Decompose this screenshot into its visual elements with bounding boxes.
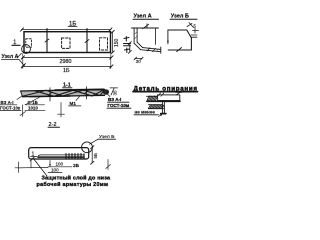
svg-text:150: 150 (114, 38, 120, 47)
detail Uzel A left dim (128, 42, 131, 54)
section 1-1 lattice zigzag (23, 90, 104, 96)
leader label S-1B / 1010 (25, 97, 45, 111)
section 1-1 tick crossing right (85, 87, 89, 99)
section 2-2 left ext cross (15, 162, 48, 173)
extension line right (110, 54, 112, 69)
svg-text:1010: 1010 (28, 105, 38, 110)
dashed opening left (26, 39, 32, 47)
right small marks stack (124, 37, 131, 53)
right vertical dimension 150 (111, 30, 120, 53)
top dimension line (21, 28, 113, 31)
plan view outline (24, 32, 111, 53)
detail Uzel A channel section (132, 24, 161, 54)
section 2-2 pos mark 1 (31, 152, 38, 158)
svg-text:2980: 2980 (60, 59, 72, 65)
leader to note (33, 158, 47, 176)
section 2-2 recess lines (38, 155, 84, 157)
svg-text:30: 30 (136, 59, 141, 64)
svg-text:ВЗ А-I: ВЗ А-I (1, 100, 14, 105)
top dimension label 1Б (68, 21, 77, 27)
svg-text:Защитный слой до низа: Защитный слой до низа (42, 175, 112, 182)
svg-text:М1: М1 (70, 101, 77, 106)
title Uzel B (detail) (170, 14, 197, 20)
leader cross left (20, 105, 26, 117)
title section 1-1 (63, 83, 73, 89)
section 2-2 right dim 56 (91, 146, 98, 165)
leader label V3 A-I / GOST left (0, 96, 23, 111)
support detail slab (147, 92, 182, 101)
svg-text:1Б: 1Б (63, 68, 70, 74)
support detail step (149, 101, 166, 114)
section 2-2 bottom dim 100 lower (48, 167, 62, 172)
svg-text:100: 100 (56, 161, 64, 166)
section 2-2 bottom dim 100 upper (48, 161, 80, 169)
node B callout circle (82, 142, 93, 153)
svg-text:35: 35 (113, 90, 118, 96)
section cut mark 1 (left) (12, 39, 20, 46)
support detail bearing ticks (158, 93, 164, 96)
section 1-1 right end hook (103, 89, 109, 95)
detail Uzel B chamfer dims (187, 23, 199, 38)
svg-text:ГОСТ-10м: ГОСТ-10м (108, 103, 130, 108)
svg-text:не менее: не менее (135, 109, 156, 114)
detail Uzel A bottom dim 30 (134, 57, 143, 64)
leader label M5 / GOST right (107, 94, 131, 108)
support detail mortar hatch (148, 105, 164, 109)
svg-text:ГОСТ-10к: ГОСТ-10к (0, 105, 21, 110)
label Uzel B (callout) (90, 134, 116, 144)
extension line left (22, 54, 24, 69)
section 1-1 tick crossing left (48, 88, 52, 101)
support detail wall hatch top (147, 96, 158, 102)
section 2-2 slab outline (29, 148, 89, 159)
title Uzel A (detail) (133, 14, 159, 20)
section 2-2 left ext short (30, 160, 32, 169)
leader cross mid (58, 103, 65, 118)
support detail note ne menee (134, 109, 162, 116)
leader label M1 (69, 97, 82, 106)
svg-text:5Б: 5Б (93, 153, 98, 159)
section 2-2 corner slash (30, 157, 35, 161)
svg-text:2Б: 2Б (73, 163, 80, 169)
plan interior joint line right (85, 29, 89, 53)
plan interior joint line left (45, 29, 49, 53)
dashed opening center (62, 38, 70, 48)
section 1-1 right end dim 35 (110, 88, 118, 96)
bottom dimension line 1Б (21, 65, 113, 74)
dashed opening right (100, 38, 108, 50)
title section 2-2 (48, 122, 60, 128)
svg-text:100: 100 (51, 167, 59, 172)
section 2-2 end hatch dashes (66, 154, 84, 159)
title Detal opiraniya (133, 85, 198, 92)
node A callout circle (22, 45, 31, 54)
label Uzel A (callout) (2, 53, 26, 67)
section 1-1 bar outline (21, 89, 105, 96)
detail Uzel B corner section (167, 30, 192, 52)
svg-text:ВЗ А-I: ВЗ А-I (108, 97, 121, 102)
section 2-2 right leader cross (106, 160, 111, 170)
bottom dimension line 2980 (21, 56, 113, 65)
svg-text:рабочей арматуры 20мм: рабочей арматуры 20мм (37, 181, 109, 188)
